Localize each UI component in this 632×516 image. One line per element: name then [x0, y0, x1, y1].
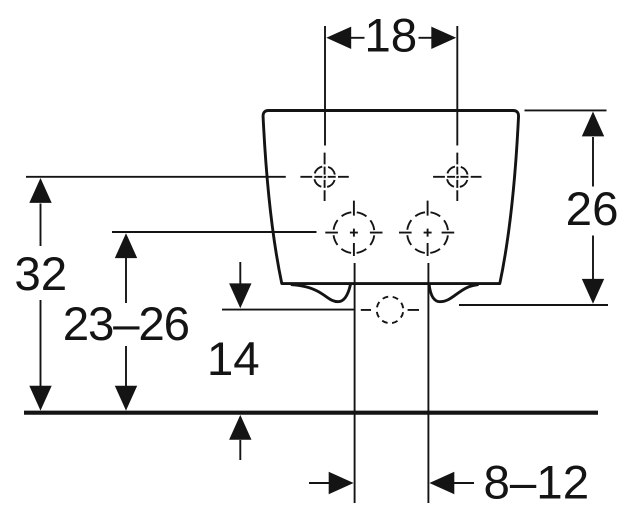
- svg-text:26: 26: [566, 183, 619, 236]
- svg-text:18: 18: [364, 10, 417, 63]
- right foot: [429, 285, 477, 302]
- bottom hole, dashed circle: [377, 297, 404, 324]
- dim 8-12: right arrow: [429, 472, 454, 494]
- dim 14: extension line: [222, 309, 355, 311]
- dim 23-26: down arrow: [115, 386, 137, 411]
- small hole left crosshair: [300, 176, 348, 178]
- dim 26: extension line bottom: [459, 304, 608, 306]
- dim 18: left arrow: [326, 27, 351, 49]
- svg-text:14: 14: [207, 333, 260, 386]
- svg-text:32: 32: [14, 248, 67, 301]
- dim 32: extension line: [26, 176, 286, 178]
- dim 14: down arrow: [229, 283, 251, 308]
- svg-text:23–26: 23–26: [63, 298, 189, 351]
- dim 8-12: left arrow: [329, 472, 354, 494]
- floor line: [24, 411, 598, 415]
- dim 18: extension line right: [456, 26, 458, 146]
- small hole right crosshair: [433, 176, 481, 178]
- svg-text:8–12: 8–12: [483, 457, 589, 510]
- dim 32: up arrow: [29, 178, 51, 203]
- dim 14: up arrow below floor: [229, 415, 251, 440]
- dim 26: dimension line: [592, 137, 594, 279]
- large hole right crosshair: [399, 201, 454, 256]
- dim 18: right arrow: [431, 27, 456, 49]
- dim 8-12: extension line 2: [427, 263, 429, 503]
- bidet body outline: [263, 111, 518, 284]
- dim 23-26: up arrow: [115, 233, 137, 258]
- dim 23-26: extension line: [112, 231, 317, 233]
- dim 23-26: dimension line: [125, 258, 127, 386]
- large hole left crosshair: [325, 201, 382, 256]
- dim 32: down arrow: [29, 386, 51, 411]
- dim 8-12: extension line 1: [354, 263, 356, 503]
- dim 26: up arrow: [582, 112, 604, 137]
- large hole left, dashed circle: [333, 212, 374, 253]
- dim 18: extension line left: [324, 26, 326, 146]
- small hole left, dashed circle: [314, 166, 335, 187]
- large hole right, dashed circle: [407, 212, 448, 253]
- dim 14: down arrow tail: [239, 262, 241, 284]
- bottom hole centerline dashes: [361, 309, 419, 311]
- left foot: [292, 285, 350, 302]
- dim 26: down arrow: [582, 279, 604, 304]
- dim 26: extension line top: [525, 109, 607, 111]
- dim 32: dimension line: [40, 204, 42, 388]
- small hole right, dashed circle: [447, 166, 468, 187]
